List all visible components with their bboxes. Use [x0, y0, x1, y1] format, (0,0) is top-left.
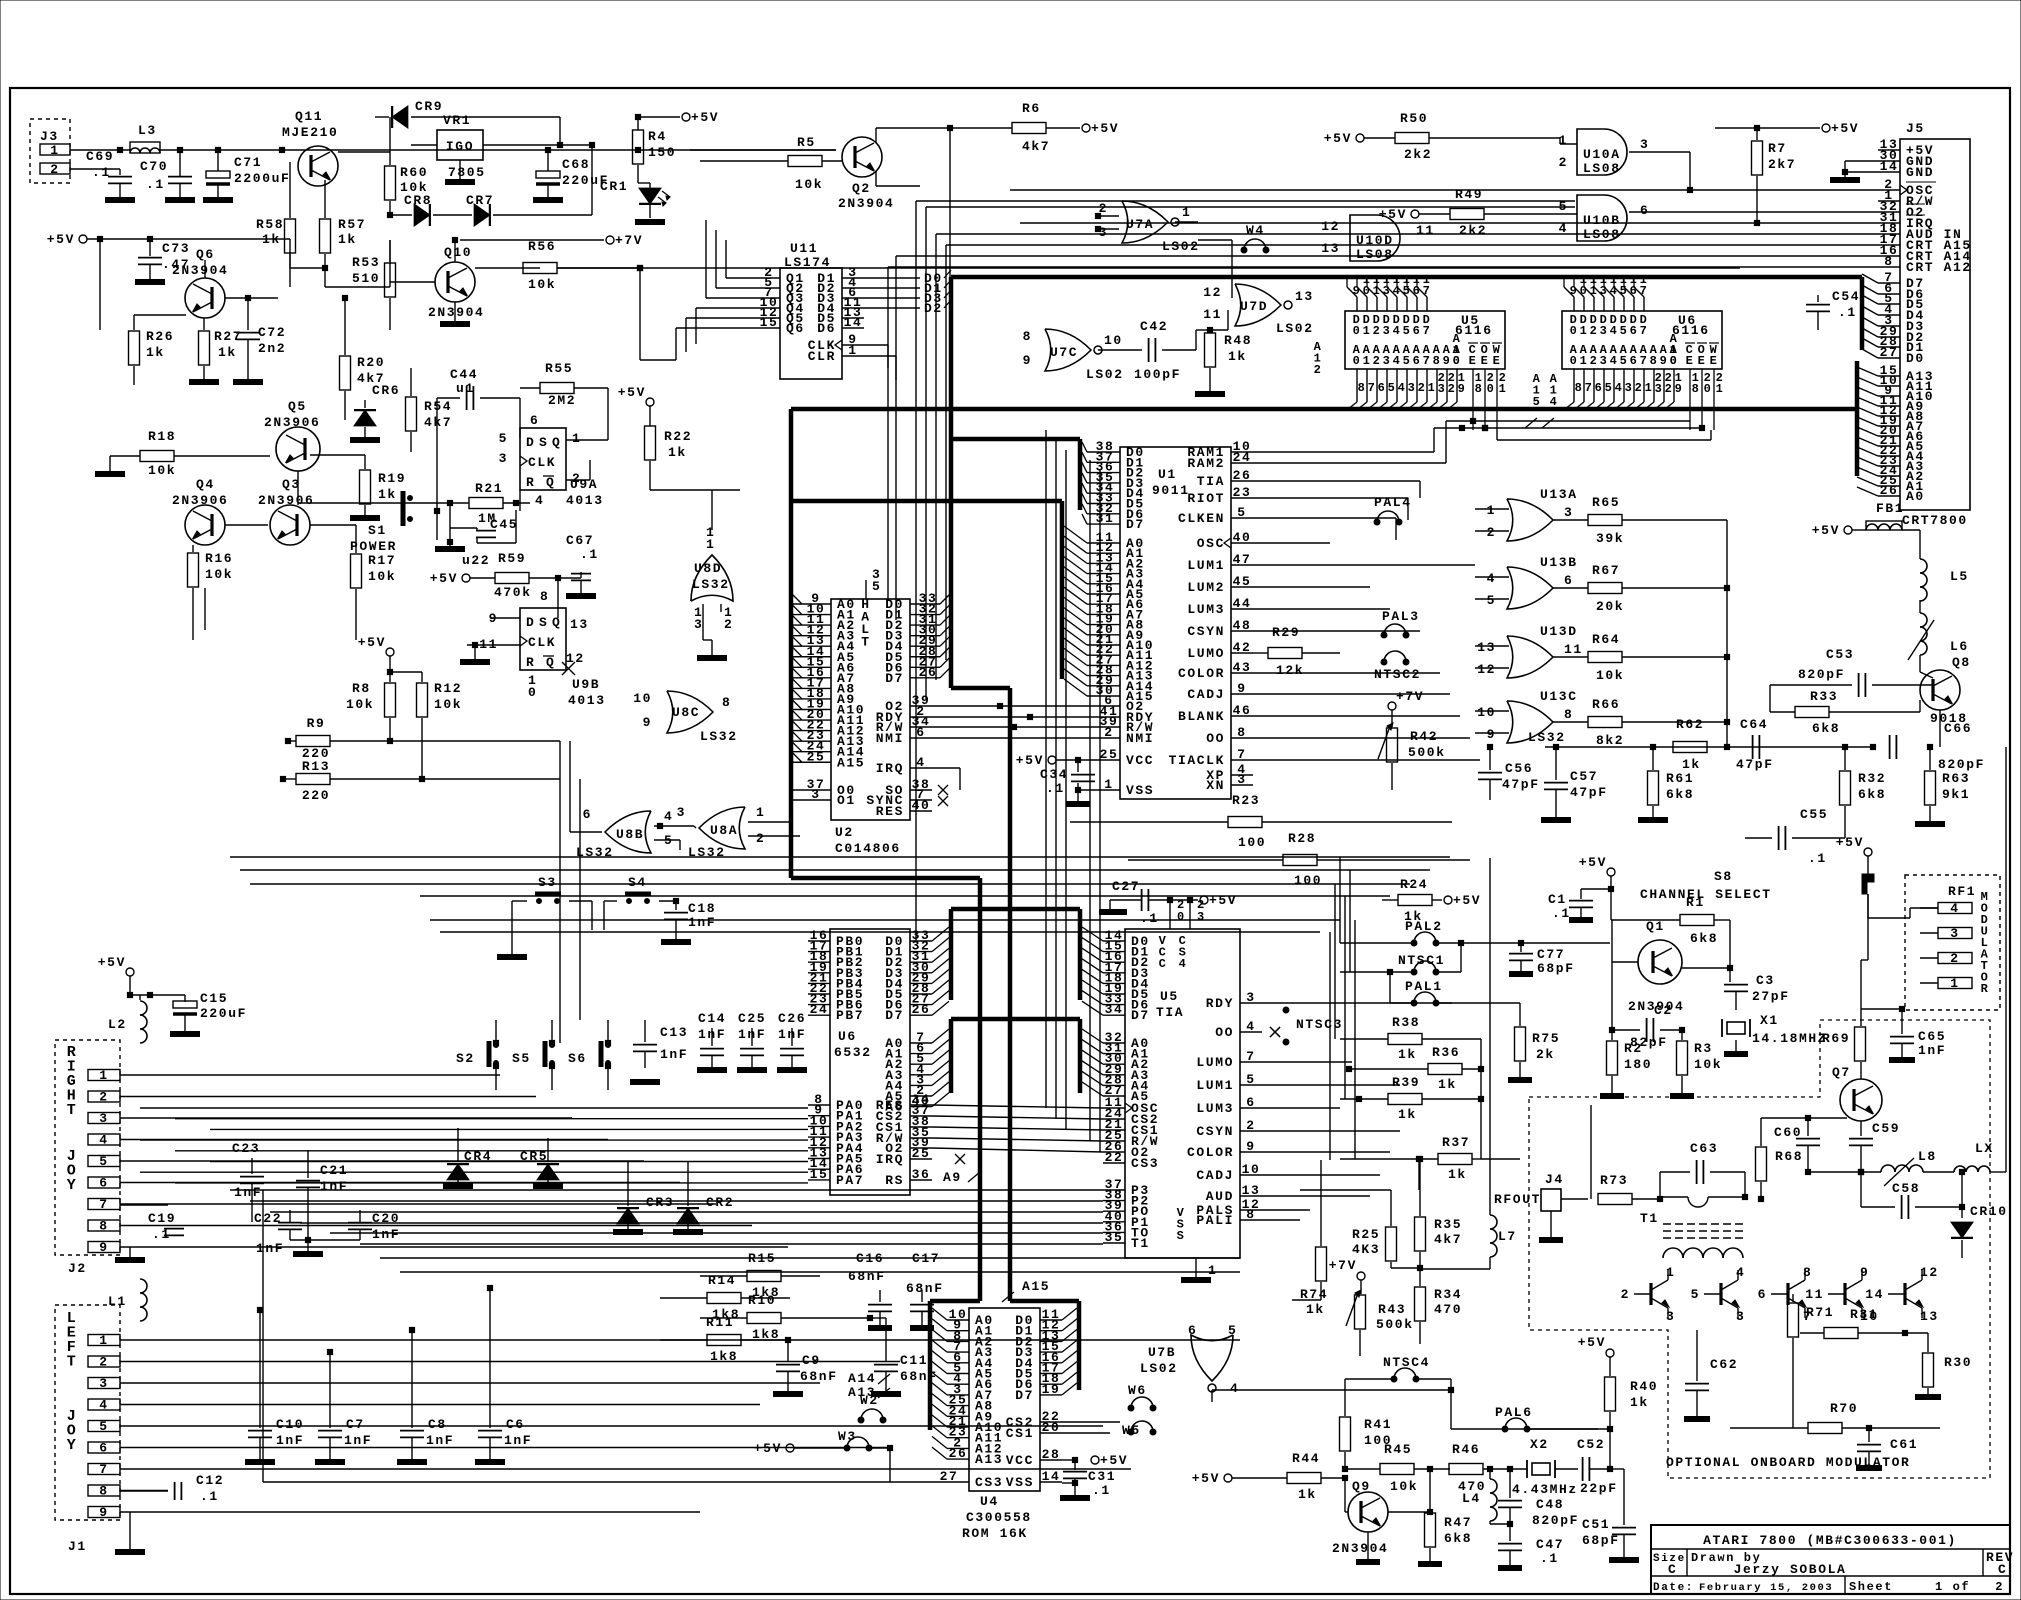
svg-text:8: 8: [99, 1484, 108, 1499]
svg-text:10k: 10k: [434, 697, 462, 712]
nor-gate U7D: [1203, 284, 1314, 336]
svg-text:7: 7: [1423, 354, 1432, 368]
svg-text:C67: C67: [566, 533, 594, 548]
svg-text:7: 7: [1640, 324, 1649, 338]
capacitor C15: [170, 991, 247, 1034]
svg-text:CLKEN: CLKEN: [1178, 511, 1225, 526]
svg-text:2: 2: [99, 1090, 108, 1105]
jumper NTSC2: [1374, 651, 1421, 682]
svg-text:U8A: U8A: [710, 823, 738, 838]
svg-text:.1: .1: [146, 177, 165, 192]
svg-text:1: 1: [50, 143, 59, 158]
svg-text:PB7: PB7: [836, 1008, 864, 1023]
svg-text:25: 25: [912, 1146, 931, 1161]
wire: [932, 1148, 1103, 1152]
svg-text:+5V: +5V: [691, 110, 719, 125]
wire: [1446, 418, 1690, 423]
bus fan riot-tia: [932, 927, 1103, 1107]
svg-text:8: 8: [1023, 329, 1032, 344]
svg-text:XN: XN: [1206, 778, 1225, 793]
svg-text:TIA: TIA: [1156, 1005, 1184, 1020]
svg-text:J3: J3: [40, 129, 59, 144]
resistor R24: [1382, 877, 1481, 924]
svg-text:2: 2: [1635, 381, 1644, 395]
svg-text:L8: L8: [1918, 1149, 1937, 1164]
switch S4: [604, 875, 676, 930]
svg-text:9011: 9011: [1152, 483, 1190, 498]
svg-text:C22: C22: [254, 1211, 282, 1226]
svg-text:R35: R35: [1434, 1217, 1462, 1232]
svg-text:6k8: 6k8: [1812, 721, 1840, 736]
svg-text:14: 14: [844, 315, 863, 330]
svg-text:Q8: Q8: [1952, 655, 1971, 670]
svg-text:R37: R37: [1442, 1135, 1470, 1150]
crystal X2: [1507, 1437, 1578, 1497]
svg-text:R8: R8: [352, 681, 371, 696]
wire: [430, 919, 1340, 921]
svg-text:RDY: RDY: [1206, 996, 1234, 1011]
wire: [1868, 908, 1938, 918]
svg-text:C20: C20: [372, 1211, 400, 1226]
wire: [175, 1150, 808, 1152]
svg-text:C42: C42: [1140, 319, 1168, 334]
svg-text:13: 13: [570, 617, 589, 632]
svg-text:RES: RES: [876, 804, 904, 819]
bus rom D: [1010, 1301, 1079, 1390]
svg-text:14.18MHZ: 14.18MHZ: [1752, 1031, 1827, 1046]
resistor R35: [1415, 1156, 1521, 1270]
svg-text:+5V: +5V: [1016, 753, 1044, 768]
svg-text:Y: Y: [67, 1437, 78, 1454]
svg-text:C72: C72: [258, 325, 286, 340]
capacitor C34: [1040, 760, 1098, 804]
svg-text:8: 8: [99, 1219, 108, 1234]
wire: [175, 1182, 808, 1184]
transistor TR4: [1805, 1265, 1879, 1324]
svg-text:OSC: OSC: [1197, 536, 1225, 551]
wire: [579, 779, 581, 1020]
wire: [440, 931, 1320, 933]
svg-text:36: 36: [912, 1167, 931, 1182]
svg-text:R25: R25: [1352, 1227, 1380, 1242]
svg-text:L3: L3: [138, 123, 157, 138]
svg-text:LUMO: LUMO: [1196, 1055, 1234, 1070]
capacitor C52: [1577, 1437, 1618, 1496]
resistor R3: [1670, 1027, 1722, 1096]
svg-text:VSS: VSS: [1126, 783, 1154, 798]
svg-text:LUM1: LUM1: [1187, 558, 1225, 573]
svg-text:9: 9: [1660, 354, 1669, 368]
svg-text:4: 4: [916, 755, 925, 770]
svg-text:IRQ: IRQ: [876, 761, 904, 776]
svg-text:8: 8: [722, 695, 731, 710]
svg-text:L5: L5: [1950, 569, 1969, 584]
svg-text:47pF: 47pF: [1570, 785, 1608, 800]
svg-text:1nF: 1nF: [504, 1433, 532, 1448]
wire: [497, 920, 527, 957]
svg-text:5: 5: [1691, 1287, 1700, 1302]
wire: [120, 1203, 716, 1205]
svg-text:1nF: 1nF: [372, 1227, 400, 1242]
wire: [0, 0, 1, 1]
svg-text:R63: R63: [1942, 771, 1970, 786]
wire: [1055, 440, 1057, 1119]
resistor R45: [1380, 1442, 1450, 1494]
capacitor C58: [1861, 1172, 1965, 1219]
svg-text:R: R: [526, 475, 535, 490]
capacitor C1: [1548, 855, 1615, 921]
wire: [946, 244, 1878, 246]
svg-text:1: 1: [1487, 503, 1496, 518]
svg-text:68pF: 68pF: [1537, 961, 1575, 976]
wire: [916, 200, 1575, 202]
svg-text:10k: 10k: [1390, 1479, 1418, 1494]
svg-text:1k: 1k: [218, 345, 237, 360]
capacitor C72: [233, 298, 286, 382]
svg-text:1k: 1k: [378, 487, 397, 502]
svg-text:7805: 7805: [448, 165, 486, 180]
svg-text:5: 5: [99, 1419, 108, 1434]
transistor TR3: [1758, 1265, 1813, 1324]
svg-text:3: 3: [1438, 382, 1447, 396]
svg-text:47pF: 47pF: [1736, 757, 1774, 772]
bus CPU left leg: [789, 409, 794, 878]
svg-text:U9B: U9B: [572, 677, 600, 692]
svg-text:4k7: 4k7: [1022, 139, 1050, 154]
or-gate U13A / resistor R65: [1475, 487, 1727, 546]
svg-text:C70: C70: [140, 159, 168, 174]
resistor R60: [385, 152, 429, 215]
resistor R17: [351, 545, 397, 640]
net label A14: [848, 1371, 890, 1386]
wire: [298, 502, 450, 504]
svg-text:R50: R50: [1400, 111, 1428, 126]
svg-text:R22: R22: [664, 429, 692, 444]
svg-text:R39: R39: [1392, 1075, 1420, 1090]
svg-text:1k: 1k: [668, 445, 687, 460]
svg-text:1: 1: [1499, 382, 1508, 396]
svg-text:1: 1: [848, 343, 857, 358]
wire: [569, 741, 571, 780]
svg-text:27: 27: [940, 1469, 959, 1484]
svg-text:1: 1: [1716, 382, 1725, 396]
svg-text:D7: D7: [1015, 1388, 1034, 1403]
svg-text:4: 4: [1615, 381, 1624, 395]
svg-text:RS: RS: [885, 1173, 904, 1188]
svg-text:Q: Q: [546, 655, 555, 670]
svg-text:LX: LX: [1975, 1141, 1994, 1156]
svg-text:500k: 500k: [1408, 745, 1446, 760]
svg-text:T: T: [67, 1102, 78, 1119]
svg-text:14: 14: [1042, 1469, 1061, 1484]
svg-text:2: 2: [1665, 382, 1674, 396]
svg-text:A0: A0: [1906, 489, 1925, 504]
svg-text:Q: Q: [552, 615, 561, 630]
svg-text:C14: C14: [698, 1011, 726, 1026]
svg-text:6k8: 6k8: [1666, 787, 1694, 802]
svg-text:15: 15: [760, 315, 779, 330]
svg-text:150: 150: [648, 145, 676, 160]
svg-text:C60: C60: [1774, 1125, 1802, 1140]
or-gate U13B / resistor R67: [1475, 555, 1727, 614]
svg-text:ROM 16K: ROM 16K: [962, 1526, 1028, 1541]
resistor R11: [660, 1315, 791, 1364]
wire: [896, 255, 1878, 257]
svg-text:10: 10: [1242, 1162, 1261, 1177]
svg-text:6: 6: [1640, 203, 1649, 218]
nor-gate U7C: [1023, 329, 1124, 382]
svg-text:1: 1: [1104, 777, 1113, 792]
inductor L3: [130, 123, 160, 153]
svg-text:11: 11: [1203, 307, 1222, 322]
wire: [1262, 1219, 1300, 1221]
svg-text:U13A: U13A: [1540, 487, 1578, 502]
transistor Q8: [1920, 655, 1971, 747]
capacitor C20: [308, 1210, 400, 1242]
svg-text:S4: S4: [628, 875, 647, 890]
svg-text:12: 12: [1920, 1265, 1939, 1280]
svg-text:6: 6: [1188, 1323, 1197, 1338]
svg-text:.1: .1: [200, 1489, 219, 1504]
svg-text:R4: R4: [648, 129, 667, 144]
transistor TR2: [1691, 1265, 1746, 1324]
resistor R47: [1388, 1469, 1472, 1564]
svg-text:LS32: LS32: [688, 845, 726, 860]
svg-text:1k: 1k: [146, 345, 165, 360]
svg-text:R57: R57: [338, 217, 366, 232]
svg-text:1nF: 1nF: [688, 915, 716, 930]
svg-text:100: 100: [1294, 873, 1322, 888]
svg-text:S2: S2: [456, 1051, 475, 1066]
svg-text:S: S: [539, 615, 548, 630]
svg-text:T1: T1: [1131, 1236, 1150, 1251]
svg-text:6532: 6532: [834, 1045, 872, 1060]
svg-text:U13D: U13D: [1540, 624, 1578, 639]
svg-text:9k1: 9k1: [1942, 787, 1970, 802]
svg-text:+5V: +5V: [1453, 893, 1481, 908]
svg-text:LS08: LS08: [1356, 247, 1394, 262]
svg-text:D: D: [526, 615, 535, 630]
svg-text:8: 8: [1564, 707, 1573, 722]
svg-text:R7: R7: [1768, 141, 1787, 156]
svg-text:26: 26: [912, 1002, 931, 1017]
svg-text:2: 2: [1246, 1118, 1255, 1133]
connector J5: [1878, 121, 1972, 528]
svg-text:S: S: [539, 435, 548, 450]
wire: [210, 1161, 808, 1163]
svg-text:LS02: LS02: [1162, 239, 1200, 254]
transistor Q5: [264, 399, 320, 505]
svg-text:9: 9: [1023, 353, 1032, 368]
svg-text:.1: .1: [1140, 911, 1159, 926]
svg-text:12k: 12k: [1276, 663, 1304, 678]
capacitor C71: [203, 150, 290, 200]
wire: [686, 308, 696, 352]
svg-text:13: 13: [1242, 1183, 1261, 1198]
resistor R7: [1752, 128, 1797, 222]
wire: [690, 149, 836, 151]
svg-text:1: 1: [99, 1068, 108, 1083]
svg-text:POWER: POWER: [350, 539, 397, 554]
wire: [210, 1128, 808, 1130]
diode CR3: [613, 1162, 674, 1232]
svg-text:15: 15: [810, 1167, 829, 1182]
svg-text:U6: U6: [838, 1029, 857, 1044]
svg-text:ATARI 7800 (MB#C300633-001): ATARI 7800 (MB#C300633-001): [1703, 1533, 1957, 1548]
svg-text:6k8: 6k8: [1690, 931, 1718, 946]
wire: [1253, 608, 1390, 610]
nor-gate U7B: [1140, 1323, 1239, 1396]
transistor Q9: [1332, 1478, 1388, 1562]
svg-text:1k: 1k: [1682, 757, 1701, 772]
svg-text:0: 0: [1704, 382, 1713, 396]
svg-text:12: 12: [566, 651, 585, 666]
wire: [360, 1244, 1240, 1272]
svg-text:470k: 470k: [494, 585, 532, 600]
net label A15: [1525, 372, 1541, 428]
diode CR5: [520, 1138, 563, 1186]
svg-text:4: 4: [99, 1398, 108, 1413]
jumper PAL2: [1340, 919, 1610, 972]
svg-text:1: 1: [1580, 324, 1589, 338]
wire: [932, 1127, 1103, 1130]
svg-text:MJE210: MJE210: [282, 125, 338, 140]
resistor R25: [1300, 1190, 1420, 1268]
svg-text:4: 4: [1246, 1019, 1255, 1034]
svg-text:4: 4: [99, 1133, 108, 1148]
svg-text:3: 3: [99, 1376, 108, 1391]
svg-text:+7V: +7V: [1329, 1258, 1357, 1273]
svg-text:100: 100: [1238, 835, 1266, 850]
nor-gate U7A: [1095, 201, 1199, 254]
bus riot-tia D: [951, 909, 1080, 1000]
svg-text:3: 3: [1640, 137, 1649, 152]
resistor R23: [1070, 793, 1452, 850]
svg-text:Q7: Q7: [1832, 1065, 1851, 1080]
svg-text:12: 12: [1203, 285, 1222, 300]
capacitor C11: [870, 1318, 938, 1394]
svg-text:R6: R6: [1022, 101, 1041, 116]
svg-text:R59: R59: [498, 551, 526, 566]
bus U1 D leg: [1078, 439, 1083, 510]
inductor L2: [108, 995, 147, 1043]
svg-text:R5: R5: [797, 135, 816, 150]
diode CR7: [433, 175, 592, 226]
svg-text:R26: R26: [146, 329, 174, 344]
svg-text:27pF: 27pF: [1752, 989, 1790, 1004]
wire: [230, 856, 1450, 858]
wire: [1020, 220, 1878, 225]
svg-text:1nF: 1nF: [1918, 1043, 1946, 1058]
svg-text:4: 4: [1487, 571, 1496, 586]
bus x1010: [1008, 688, 1013, 1301]
svg-text:VCC: VCC: [1006, 1453, 1034, 1468]
resistor R48: [1195, 327, 1252, 394]
switch S1: [350, 491, 465, 554]
svg-text:5: 5: [99, 1154, 108, 1169]
jumper NTSC3: [1270, 1007, 1343, 1045]
svg-text:7: 7: [1246, 1049, 1255, 1064]
wire: [1262, 1209, 1310, 1211]
svg-text:C52: C52: [1577, 1437, 1605, 1452]
svg-text:CSYN: CSYN: [1196, 1124, 1234, 1139]
svg-text:C12: C12: [196, 1473, 224, 1488]
resistor R28: [1128, 831, 1470, 888]
svg-text:IRQ: IRQ: [876, 1152, 904, 1167]
power +5V: [358, 635, 422, 682]
svg-text:U7B: U7B: [1148, 1345, 1176, 1360]
svg-text:+5V: +5V: [358, 635, 386, 650]
svg-text:C31: C31: [1088, 1469, 1116, 1484]
svg-text:7: 7: [1585, 381, 1594, 395]
wire: [935, 234, 937, 680]
svg-text:1nF: 1nF: [698, 1027, 726, 1042]
svg-text:2: 2: [756, 831, 765, 846]
transistor Q6: [172, 247, 228, 318]
capacitor C62: [1684, 1330, 1738, 1419]
svg-text:42: 42: [1233, 640, 1252, 655]
wire: [1253, 737, 1470, 739]
svg-text:.1: .1: [92, 165, 111, 180]
svg-text:J5: J5: [1906, 121, 1925, 136]
svg-text:.1: .1: [1552, 906, 1571, 921]
capacitor C27: [1099, 879, 1237, 926]
svg-text:Sheet: Sheet: [1849, 1580, 1893, 1594]
svg-text:R55: R55: [545, 361, 573, 376]
and-gate U10A: [1559, 129, 1650, 176]
crystal X1: [1722, 1013, 1827, 1054]
svg-text:U5: U5: [1160, 989, 1179, 1004]
svg-text:CR1: CR1: [600, 179, 628, 194]
svg-text:S6: S6: [568, 1051, 587, 1066]
svg-text:C57: C57: [1570, 769, 1598, 784]
svg-text:C51: C51: [1582, 1517, 1610, 1532]
svg-text:2: 2: [50, 162, 59, 177]
svg-text:1nF: 1nF: [234, 1185, 262, 1200]
resistor R71: [1788, 1294, 1835, 1428]
svg-text:R46: R46: [1452, 1442, 1480, 1457]
wire: [70, 147, 836, 152]
wire: [70, 169, 120, 175]
svg-text:24: 24: [810, 1002, 829, 1017]
svg-text:+7V: +7V: [615, 233, 643, 248]
svg-text:5: 5: [872, 579, 881, 594]
svg-text:2N3906: 2N3906: [264, 415, 320, 430]
transistor Q7: [1832, 1065, 1882, 1121]
svg-text:28: 28: [1042, 1447, 1061, 1462]
svg-text:C6: C6: [506, 1417, 525, 1432]
capacitor C18: [661, 898, 716, 942]
svg-text:L4: L4: [1462, 1491, 1481, 1506]
svg-text:2: 2: [1995, 1580, 2004, 1594]
svg-text:R: R: [526, 655, 535, 670]
svg-text:CHANNEL SELECT: CHANNEL SELECT: [1640, 887, 1772, 902]
resistor R21: [447, 481, 530, 526]
svg-text:6: 6: [99, 1441, 108, 1456]
svg-text:U13B: U13B: [1540, 555, 1578, 570]
svg-text:CRT A12: CRT A12: [1906, 260, 1972, 275]
svg-text:1k: 1k: [1438, 1077, 1457, 1092]
svg-text:GND: GND: [1906, 165, 1934, 180]
svg-text:E: E: [1686, 354, 1695, 368]
svg-text:2: 2: [1950, 951, 1959, 966]
svg-text:C56: C56: [1505, 761, 1533, 776]
svg-text:U11: U11: [790, 241, 818, 256]
svg-text:24: 24: [1233, 450, 1252, 465]
wire: [1253, 715, 1460, 717]
svg-text:+5V: +5V: [1091, 121, 1119, 136]
wire: [932, 768, 960, 790]
